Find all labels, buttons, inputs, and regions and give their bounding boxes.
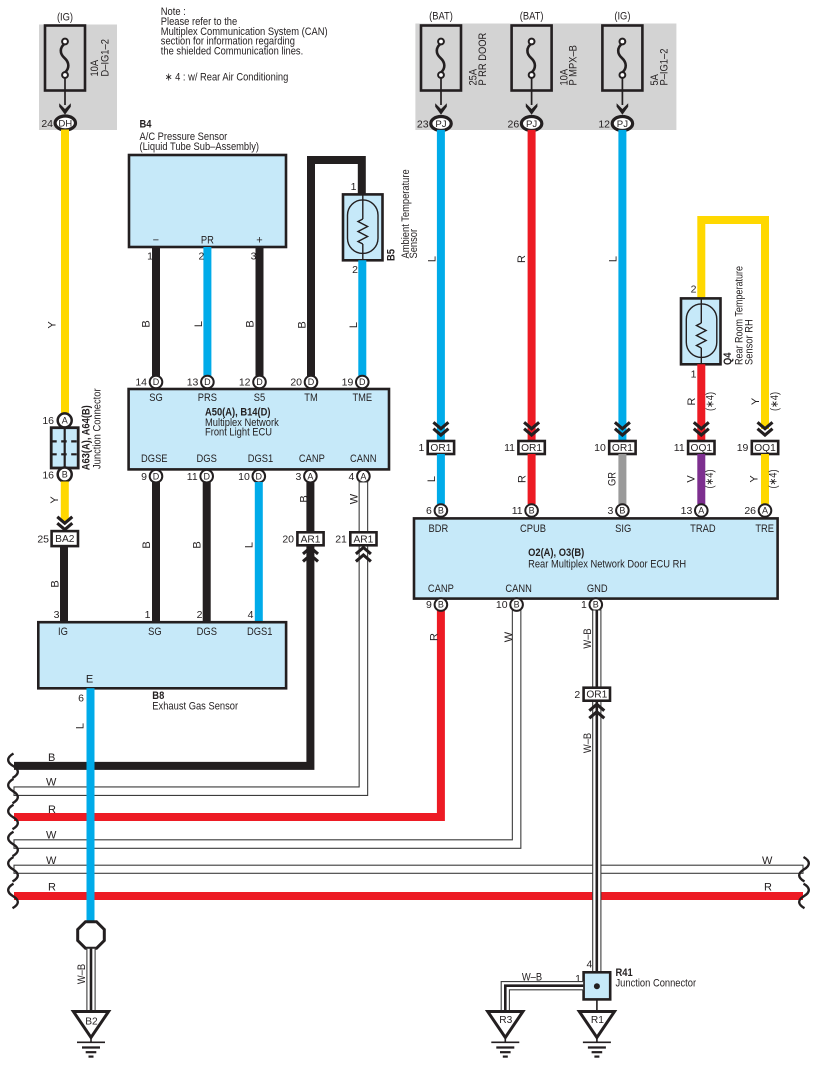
- connector PJ pin 12: [598, 117, 632, 131]
- svg-text:W: W: [46, 830, 57, 842]
- svg-text:S5: S5: [254, 392, 265, 404]
- wire V from OQ1 to TRAD: [697, 454, 705, 504]
- bus break curl R2 right: [799, 884, 809, 909]
- svg-text:12: 12: [239, 377, 251, 389]
- svg-text:W: W: [503, 631, 515, 642]
- svg-text:9: 9: [426, 599, 432, 611]
- wire Y from junction connector to BA2: [61, 482, 69, 523]
- svg-text:R: R: [48, 882, 56, 894]
- chevron into BA2: [57, 517, 72, 530]
- svg-text:26: 26: [744, 505, 756, 517]
- svg-text:TRE: TRE: [755, 523, 774, 535]
- shaded area right (fuse block): [415, 24, 676, 131]
- bus break curl R1: [8, 805, 18, 830]
- wire B DGS to B8 DGS: [203, 482, 211, 622]
- connector PJ pin 26: [508, 117, 542, 131]
- svg-text:PJ: PJ: [617, 119, 628, 130]
- B5 Ambient Temperature Sensor: [343, 169, 420, 261]
- svg-text:+: +: [256, 235, 262, 247]
- svg-text:B: B: [141, 541, 153, 548]
- svg-text:21: 21: [335, 534, 347, 546]
- svg-text:B: B: [48, 752, 55, 764]
- wire Y from DH to junction connector: [61, 130, 69, 414]
- connector AR1 pin 20: [282, 532, 323, 561]
- bus wire R full width: [14, 892, 803, 900]
- svg-text:BDR: BDR: [429, 523, 449, 535]
- wire B hook from TM to B5 pin 1: [311, 160, 362, 377]
- svg-text:Y: Y: [46, 321, 58, 329]
- svg-text:GR: GR: [607, 472, 619, 486]
- svg-text:Rear Multiplex Network Door EC: Rear Multiplex Network Door ECU RH: [528, 559, 686, 571]
- wire B DGSE to B8 SG: [152, 482, 160, 622]
- svg-text:(∗4): (∗4): [767, 469, 779, 488]
- svg-text:B: B: [593, 600, 599, 610]
- svg-text:Junction Connector: Junction Connector: [92, 388, 104, 469]
- svg-text:9: 9: [141, 471, 147, 483]
- pin 26 A: [759, 504, 772, 517]
- svg-text:OQ1: OQ1: [754, 443, 776, 454]
- svg-text:19: 19: [737, 442, 749, 454]
- svg-text:OR1: OR1: [612, 443, 633, 454]
- svg-text:Sensor RH: Sensor RH: [744, 319, 756, 365]
- svg-text:B: B: [62, 470, 68, 480]
- svg-text:∗ 4 : w/ Rear Air Conditioning: ∗ 4 : w/ Rear Air Conditioning: [165, 72, 289, 84]
- note text: [161, 6, 328, 84]
- svg-text:OR1: OR1: [521, 443, 542, 454]
- fuse 10A D-IG1-2: [45, 12, 112, 115]
- svg-text:IG: IG: [58, 626, 68, 638]
- svg-text:A: A: [762, 506, 768, 516]
- svg-text:4: 4: [586, 958, 592, 970]
- connector OQ1 pin 11: [674, 422, 715, 454]
- svg-text:Q4: Q4: [722, 352, 734, 365]
- svg-text:OQ1: OQ1: [691, 443, 713, 454]
- svg-text:3: 3: [608, 505, 614, 517]
- svg-text:D: D: [153, 471, 160, 481]
- svg-text:D–IG1–2: D–IG1–2: [100, 39, 112, 76]
- pin 12 D: [253, 376, 266, 389]
- svg-text:D: D: [256, 471, 263, 481]
- wire Y loop to Q4 and OQ1 19: [701, 220, 765, 429]
- svg-text:BA2: BA2: [55, 534, 75, 545]
- B8 Exhaust Gas Sensor box: [38, 609, 286, 713]
- svg-text:1: 1: [145, 609, 151, 621]
- svg-text:Y: Y: [49, 496, 61, 504]
- svg-text:20: 20: [282, 534, 294, 546]
- svg-text:6: 6: [78, 692, 84, 704]
- svg-text:R: R: [686, 397, 698, 405]
- svg-text:B: B: [298, 495, 310, 502]
- wire L from B5 pin2 to TME: [358, 260, 366, 376]
- svg-text:AR1: AR1: [353, 534, 373, 545]
- bus wire W full width: [14, 865, 803, 873]
- svg-text:Front Light ECU: Front Light ECU: [205, 427, 272, 439]
- svg-text:(∗4): (∗4): [704, 469, 716, 488]
- wire R from PJ26 to OR1: [528, 130, 536, 441]
- svg-text:W–B: W–B: [582, 628, 594, 648]
- pin 4 A: [357, 470, 370, 483]
- svg-text:(BAT): (BAT): [429, 11, 453, 23]
- wire B4 pin1 to SG: [152, 247, 160, 377]
- svg-text:1: 1: [147, 251, 153, 263]
- svg-text:DH: DH: [58, 118, 72, 129]
- svg-text:P RR DOOR: P RR DOOR: [477, 33, 489, 86]
- svg-text:3: 3: [296, 471, 302, 483]
- connector AR1 pin 21: [335, 532, 376, 561]
- svg-text:W–B: W–B: [76, 964, 88, 984]
- junction connector A63(A), A64(B): [42, 388, 103, 481]
- svg-text:DGSE: DGSE: [141, 453, 168, 465]
- svg-text:−: −: [153, 235, 159, 247]
- svg-text:R1: R1: [591, 1015, 604, 1026]
- bus break curl B: [8, 754, 18, 779]
- wire W from rear ECU CANN to bus: [14, 610, 521, 849]
- svg-text:2: 2: [197, 609, 203, 621]
- svg-text:Y: Y: [750, 397, 762, 405]
- svg-text:D: D: [204, 377, 211, 387]
- Q4 Rear Room Temperature Sensor RH: [681, 266, 756, 381]
- svg-text:R: R: [428, 633, 440, 641]
- svg-text:Y: Y: [749, 475, 761, 483]
- svg-text:13: 13: [681, 505, 693, 517]
- wire W-B from R41 pin1 to R3: [501, 972, 583, 1012]
- ground R1: [579, 1012, 614, 1057]
- svg-text:DGS: DGS: [197, 626, 217, 638]
- svg-text:2: 2: [574, 689, 580, 701]
- fuse 10A P MPX-B: [512, 11, 580, 115]
- svg-text:CANN: CANN: [350, 453, 377, 465]
- bus break curl W2: [8, 832, 18, 857]
- svg-text:B: B: [192, 541, 204, 548]
- wire B from BA2 to B8: [60, 546, 68, 622]
- svg-text:PR: PR: [201, 235, 214, 247]
- svg-text:11: 11: [512, 505, 523, 517]
- svg-text:L: L: [607, 256, 619, 262]
- svg-text:P–IG1–2: P–IG1–2: [658, 49, 670, 86]
- shield octagon node: [78, 922, 105, 949]
- svg-text:DGS1: DGS1: [248, 453, 274, 465]
- pin 14 D: [150, 376, 163, 389]
- pin 3 A: [304, 470, 317, 483]
- junction connector R41: [575, 958, 696, 999]
- pin 3 B: [616, 504, 629, 517]
- svg-text:R: R: [48, 804, 56, 816]
- svg-text:A: A: [698, 506, 704, 516]
- wire Y from OQ1 to TRE: [761, 454, 769, 504]
- svg-text:W: W: [46, 777, 57, 789]
- svg-text:CANP: CANP: [428, 583, 454, 595]
- svg-text:W: W: [349, 493, 361, 504]
- svg-text:Junction Connector: Junction Connector: [616, 978, 697, 990]
- connector PJ pin 23: [417, 117, 451, 131]
- svg-text:11: 11: [187, 471, 198, 483]
- svg-text:Exhaust Gas Sensor: Exhaust Gas Sensor: [152, 701, 238, 713]
- connector OR1 pin 11: [504, 422, 545, 454]
- svg-text:3: 3: [54, 609, 60, 621]
- connector OR1 pin 1: [418, 422, 454, 454]
- bus break curl W3: [8, 857, 18, 882]
- svg-text:(BAT): (BAT): [520, 11, 544, 23]
- svg-text:26: 26: [508, 118, 520, 130]
- svg-text:P MPX–B: P MPX–B: [568, 45, 580, 85]
- svg-text:2: 2: [352, 264, 358, 276]
- wire L from B8 pin 6 to noise filter: [87, 688, 95, 922]
- svg-text:DGS1: DGS1: [247, 626, 273, 638]
- svg-text:DGS: DGS: [197, 453, 217, 465]
- svg-text:D: D: [153, 377, 160, 387]
- pin 20 D: [305, 376, 318, 389]
- svg-text:10: 10: [238, 471, 250, 483]
- svg-text:B5: B5: [386, 249, 398, 261]
- pin 1 B: [590, 598, 603, 611]
- svg-text:10: 10: [496, 599, 508, 611]
- svg-text:CANP: CANP: [299, 453, 325, 465]
- wire L from OR1 to BDR: [437, 454, 445, 504]
- wire B4 pin2 (L) to PRS: [203, 247, 211, 377]
- svg-text:TRAD: TRAD: [690, 523, 716, 535]
- pin 10 D: [252, 470, 265, 483]
- svg-text:B: B: [514, 600, 520, 610]
- bus break curl R2: [8, 884, 18, 909]
- svg-text:D: D: [256, 377, 263, 387]
- svg-text:B2: B2: [85, 1017, 98, 1028]
- svg-text:L: L: [193, 321, 205, 327]
- svg-text:(∗4): (∗4): [704, 392, 716, 411]
- svg-text:TME: TME: [352, 392, 372, 404]
- svg-text:L: L: [427, 256, 439, 262]
- pin 11 D: [200, 470, 213, 483]
- svg-text:3: 3: [251, 251, 257, 263]
- svg-text:B: B: [619, 506, 625, 516]
- wire B4 pin3 to S5: [256, 247, 264, 377]
- svg-text:1: 1: [351, 181, 357, 193]
- wire R from Q4 pin1 to OQ1: [697, 364, 705, 441]
- svg-text:B: B: [529, 506, 535, 516]
- svg-text:6: 6: [426, 505, 432, 517]
- bus break curl W3 right: [799, 857, 809, 882]
- pin 10 B: [510, 598, 523, 611]
- fuse 25A P RR DOOR: [421, 11, 489, 115]
- svg-text:(Liquid Tube Sub–Assembly): (Liquid Tube Sub–Assembly): [140, 141, 260, 153]
- svg-text:the shielded Communication lin: the shielded Communication lines.: [161, 46, 303, 58]
- wire W-B from octagon to B2: [76, 948, 95, 1011]
- wire L from PJ23 to OR1: [437, 130, 445, 441]
- svg-text:R3: R3: [499, 1015, 512, 1026]
- svg-text:11: 11: [674, 442, 685, 454]
- wire B from CANP via AR1 to bus: [14, 482, 310, 766]
- fuse 5A P-IG1-2: [602, 11, 670, 115]
- svg-text:14: 14: [135, 377, 147, 389]
- svg-text:B4: B4: [140, 119, 153, 131]
- svg-text:R: R: [517, 475, 529, 483]
- wire W-B from GND to R41: [582, 610, 601, 972]
- pin 11 B: [525, 504, 538, 517]
- svg-text:B: B: [50, 580, 62, 587]
- svg-text:1: 1: [581, 599, 587, 611]
- svg-text:L: L: [75, 723, 87, 729]
- svg-text:W–B: W–B: [582, 733, 594, 753]
- svg-text:L: L: [348, 322, 360, 328]
- svg-text:W–B: W–B: [522, 972, 542, 984]
- svg-text:19: 19: [342, 377, 354, 389]
- svg-text:CANN: CANN: [505, 583, 532, 595]
- svg-text:11: 11: [504, 442, 515, 454]
- svg-text:CPUB: CPUB: [520, 523, 546, 535]
- svg-text:OR1: OR1: [430, 443, 451, 454]
- wire from R41 to R1: [596, 999, 598, 1011]
- svg-text:PRS: PRS: [198, 392, 217, 404]
- svg-text:AR1: AR1: [301, 534, 321, 545]
- svg-text:(IG): (IG): [57, 12, 73, 24]
- B4 A/C Pressure Sensor box: [129, 119, 286, 248]
- svg-text:4: 4: [349, 471, 355, 483]
- connector OQ1 pin 19: [737, 422, 778, 454]
- svg-text:PJ: PJ: [435, 119, 446, 130]
- svg-text:4: 4: [248, 609, 254, 621]
- svg-text:B: B: [438, 506, 444, 516]
- svg-text:D: D: [308, 377, 315, 387]
- svg-text:L: L: [244, 542, 256, 548]
- svg-text:SIG: SIG: [615, 523, 631, 535]
- svg-text:1: 1: [418, 442, 424, 454]
- wire W from CANN via AR1 to bus: [14, 482, 368, 795]
- svg-text:20: 20: [290, 377, 302, 389]
- svg-text:(∗4): (∗4): [769, 392, 781, 411]
- svg-text:TM: TM: [304, 392, 318, 404]
- svg-text:SG: SG: [148, 626, 162, 638]
- ground B2: [73, 1012, 108, 1057]
- pin 9 B: [435, 598, 448, 611]
- svg-text:(IG): (IG): [614, 11, 630, 23]
- svg-text:A: A: [62, 416, 68, 426]
- ECU A50(A), B14(D) Multiplex Network Front Light ECU: [129, 389, 389, 469]
- svg-text:E: E: [86, 673, 93, 685]
- svg-text:V: V: [685, 475, 697, 483]
- pin 6 B: [435, 504, 448, 517]
- svg-text:A: A: [307, 471, 313, 481]
- svg-text:A: A: [360, 471, 366, 481]
- pin 9 D: [150, 470, 163, 483]
- svg-text:Sensor: Sensor: [408, 229, 420, 259]
- svg-text:23: 23: [417, 118, 429, 130]
- bus break curl W1: [8, 779, 18, 804]
- shaded area left (fuse block): [39, 25, 117, 131]
- svg-text:OR1: OR1: [586, 690, 607, 701]
- svg-text:D: D: [203, 471, 210, 481]
- svg-text:L: L: [426, 476, 438, 482]
- svg-text:B: B: [297, 321, 309, 328]
- svg-text:2: 2: [199, 251, 205, 263]
- connector BA2 pin 25: [37, 531, 78, 546]
- svg-text:W: W: [46, 855, 57, 867]
- svg-text:13: 13: [187, 377, 199, 389]
- svg-text:O2(A), O3(B): O2(A), O3(B): [528, 547, 584, 559]
- pin 13 A: [695, 504, 708, 517]
- wire L DGS1 to B8 DGS1: [255, 482, 263, 622]
- svg-text:GND: GND: [587, 583, 608, 595]
- svg-text:12: 12: [598, 118, 610, 130]
- svg-text:R: R: [516, 255, 528, 263]
- svg-text:16: 16: [42, 469, 54, 481]
- svg-text:16: 16: [42, 415, 54, 427]
- svg-text:B: B: [438, 600, 444, 610]
- wire GR from OR1 to SIG: [618, 454, 626, 504]
- svg-text:D: D: [359, 377, 366, 387]
- svg-text:2: 2: [691, 284, 697, 296]
- ground R3: [488, 1012, 523, 1057]
- svg-text:10: 10: [594, 442, 606, 454]
- ECU O2(A), O3(B) Rear Multiplex Network Door ECU RH: [414, 518, 778, 598]
- wire L from PJ12 to OR1: [618, 130, 626, 441]
- svg-text:B: B: [140, 320, 152, 327]
- svg-text:SG: SG: [149, 392, 163, 404]
- svg-text:W: W: [762, 855, 773, 867]
- pin 13 D: [201, 376, 214, 389]
- wire R from OR1 to CPUB: [528, 454, 536, 504]
- pin 19 D: [356, 376, 369, 389]
- svg-text:1: 1: [691, 369, 697, 381]
- connector OR1 pin 10: [594, 422, 635, 454]
- svg-text:24: 24: [41, 118, 53, 130]
- svg-text:PJ: PJ: [526, 119, 537, 130]
- svg-text:25: 25: [37, 533, 49, 545]
- connector OR1 pin 2: [574, 688, 610, 719]
- connector DH pin 24: [41, 116, 75, 130]
- svg-text:R: R: [764, 882, 772, 894]
- wire R from rear ECU CANP to bus: [14, 610, 441, 818]
- svg-text:B: B: [244, 320, 256, 327]
